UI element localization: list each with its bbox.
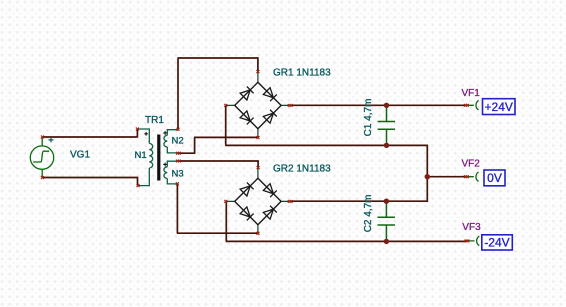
transformer TR1 secondary coil N3	[164, 167, 167, 179]
bridge GR1 diode D1 top-left	[240, 87, 254, 101]
wire N3 top to GR2 top pin	[179, 160, 259, 167]
output pin VF1	[466, 101, 479, 110]
transformer TR1 polarity mark N2	[163, 131, 167, 135]
svg-text:N2: N2	[172, 136, 184, 147]
label VG1 plus polarity mark	[49, 137, 54, 142]
bridge GR2 diode D3 bottom-left	[240, 207, 254, 221]
transformer TR1 polarity mark N1	[144, 132, 148, 136]
pin marker VG1 bottom	[41, 176, 44, 179]
bridge GR1 diamond	[235, 82, 281, 128]
capacitor C1	[378, 105, 396, 145]
value box 0V	[484, 170, 505, 186]
pin marker N2 top	[177, 128, 180, 131]
bridge rectifier GR2	[226, 168, 290, 234]
transformer TR1 secondary coil N3 leads	[167, 161, 178, 184]
svg-text:N3: N3	[172, 169, 184, 180]
junction C1 top	[384, 103, 389, 108]
pin marker GR1 left	[224, 104, 227, 107]
pin marker TR1 primary bottom	[137, 184, 140, 187]
svg-text:+24V: +24V	[485, 100, 513, 114]
value box -24V	[482, 235, 513, 250]
wire GR1 left pin down, across middle to VF2 column and GR2 right pin	[225, 105, 428, 201]
pin marker N2 bottom (double)	[176, 152, 181, 155]
wire GR2 left pin down to VF3 rail	[226, 201, 467, 242]
transformer TR1 secondary coil N2 leads	[167, 130, 178, 153]
junction C2 bottom	[384, 239, 389, 244]
wire N2 top to GR1 top pin	[177, 57, 258, 129]
pin marker GR2 left	[224, 200, 227, 203]
voltage source VG1	[30, 137, 53, 178]
pin marker N3 top (double)	[176, 160, 181, 163]
svg-text:VF1: VF1	[462, 88, 481, 99]
transformer TR1 primary coil N1	[149, 143, 152, 168]
bridge GR2 diode D2 top-right	[263, 184, 277, 198]
svg-text:GR1 1N1183: GR1 1N1183	[273, 68, 331, 79]
svg-text:C1 4,7m: C1 4,7m	[363, 99, 374, 137]
bridge GR2 diamond	[235, 178, 281, 224]
pin marker GR2 bottom	[257, 232, 260, 235]
pin marker VF1 terminal (double)	[464, 104, 469, 107]
wire N2 bottom to GR1 bottom pin	[179, 137, 258, 153]
svg-text:GR2 1N1183: GR2 1N1183	[273, 164, 331, 175]
pin marker VF2 terminal (double)	[464, 175, 469, 178]
pin marker GR1 top	[256, 70, 259, 73]
bridge GR1 diode D2 top-right	[263, 88, 277, 102]
pin marker VG1 top	[41, 136, 44, 139]
transformer TR1 primary coil N1 leads	[137, 129, 149, 186]
junction VF2 node	[425, 174, 430, 179]
wire VF2 tap	[427, 176, 465, 178]
wire N3 bottom to GR2 bottom pin	[177, 184, 258, 234]
svg-text:-24V: -24V	[484, 236, 509, 250]
bridge GR2 pins	[226, 168, 290, 234]
svg-text:C2 4,7m: C2 4,7m	[363, 195, 374, 233]
transformer TR1 secondary coil N2	[164, 135, 167, 147]
bridge GR2 diode D1 top-left	[240, 183, 254, 197]
wire VG1 bottom to TR1 primary bottom	[43, 177, 139, 186]
svg-text:N1: N1	[135, 150, 147, 161]
junction C2 top	[384, 199, 389, 204]
svg-text:VF2: VF2	[462, 159, 481, 170]
pin marker GR1 bottom	[257, 136, 260, 139]
pin marker TR1 primary top	[136, 128, 139, 131]
bridge GR2 diode D4 bottom-right	[263, 206, 277, 220]
wire VG1 top to TR1 primary top	[43, 129, 138, 138]
bridge GR1 diode D3 bottom-left	[240, 111, 254, 125]
wire GR1 right pin to VF1	[290, 104, 466, 106]
pin marker GR1 right (double)	[288, 104, 293, 107]
bridge GR1 pins	[226, 72, 290, 138]
capacitor C2	[378, 201, 396, 241]
transformer TR1 core	[157, 135, 160, 181]
transformer TR1 polarity mark N3	[163, 163, 167, 167]
pin marker GR2 top	[257, 166, 260, 169]
bridge GR1 diode D4 bottom-right	[263, 110, 277, 124]
svg-text:VF3: VF3	[462, 222, 481, 233]
svg-text:TR1: TR1	[145, 115, 164, 126]
output pin VF2	[466, 172, 479, 181]
junction C1 bottom	[384, 143, 389, 148]
output pin VF3	[466, 236, 479, 245]
pin marker VF3 terminal (double)	[465, 240, 470, 243]
pin marker GR2 right (double)	[288, 200, 293, 203]
svg-text:0V: 0V	[487, 171, 502, 185]
value box +24V	[483, 99, 516, 115]
svg-text:VG1: VG1	[70, 150, 90, 161]
pin marker N3 bottom	[176, 182, 179, 185]
bridge rectifier GR1	[226, 72, 290, 138]
